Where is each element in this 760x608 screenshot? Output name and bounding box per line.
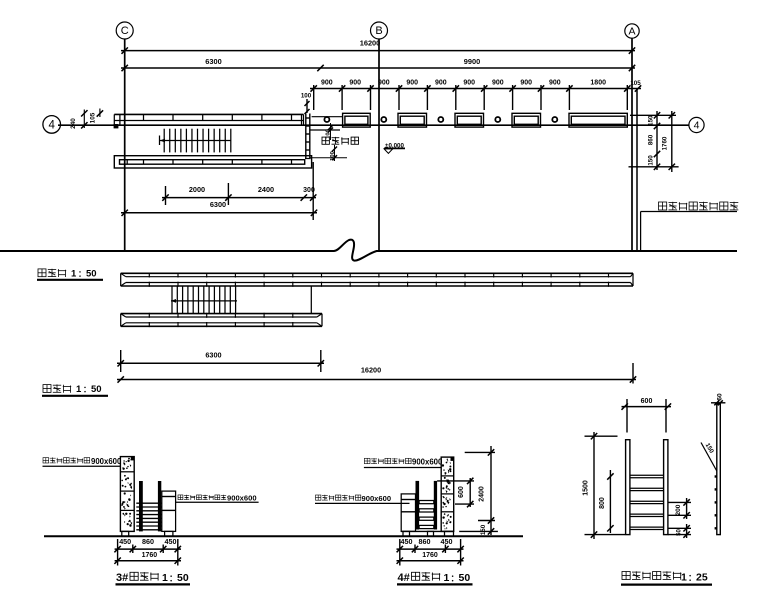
svg-text:：: ：: [83, 385, 91, 394]
dimension row 900x9 1800 105: [310, 88, 641, 90]
svg-text:150: 150: [480, 524, 487, 535]
svg-text:900x600: 900x600: [412, 458, 443, 467]
dimension 6300 plan: [121, 212, 317, 214]
3# right stone block: [162, 491, 176, 531]
svg-text:3#: 3#: [116, 572, 128, 584]
svg-text:1: 1: [71, 269, 77, 280]
svg-text:900x600: 900x600: [362, 494, 392, 503]
svg-text:900: 900: [349, 79, 361, 86]
dimension 16200 top view: [117, 379, 636, 381]
3# label granite right: [178, 495, 183, 500]
detail ladder rails: [626, 440, 630, 535]
right dims 150 860 150 1760: [630, 114, 676, 116]
grid circle B: [371, 22, 388, 39]
top view stair arrow: [171, 300, 237, 302]
top view band long: [121, 272, 633, 274]
svg-text:1760: 1760: [662, 136, 669, 150]
dimension 6300 / 9900: [121, 67, 635, 69]
4# label granite left: [316, 495, 321, 500]
ladder in plan: [305, 114, 307, 159]
anchor circles: [324, 117, 329, 122]
svg-text:860: 860: [142, 537, 154, 546]
svg-text:900: 900: [321, 79, 333, 86]
label ladder detail 1:25: [622, 572, 630, 580]
svg-text:600: 600: [458, 486, 465, 498]
svg-text:900: 900: [549, 79, 561, 86]
svg-text:800: 800: [599, 497, 606, 509]
4# ladder rails: [416, 481, 420, 530]
4# base and feet: [401, 530, 454, 532]
svg-text:4: 4: [48, 120, 55, 132]
stair arrow plan: [160, 140, 231, 142]
upper trench band: [114, 113, 303, 115]
grid line C: [124, 39, 126, 252]
ladder dims 100 100: [312, 116, 343, 118]
svg-text:16200: 16200: [360, 39, 381, 48]
svg-text:2400: 2400: [479, 486, 486, 502]
svg-text:B: B: [375, 25, 382, 37]
svg-text:25: 25: [696, 572, 708, 584]
svg-text:150: 150: [648, 155, 655, 166]
detail dim 200: [686, 498, 688, 519]
svg-text:50: 50: [177, 572, 189, 584]
4# dim 600: [469, 478, 471, 507]
3# feet: [122, 531, 129, 536]
svg-text:105: 105: [90, 112, 97, 123]
detail dim 800: [609, 470, 611, 533]
svg-text:1800: 1800: [590, 79, 606, 86]
4# left stone block: [401, 494, 415, 532]
4# label granite top: [364, 458, 370, 463]
detail dim 50: [686, 524, 688, 538]
svg-text:16200: 16200: [361, 365, 381, 374]
svg-text:900: 900: [406, 79, 418, 86]
svg-text:900: 900: [520, 79, 532, 86]
svg-text:150: 150: [648, 115, 655, 126]
top view band short: [121, 313, 322, 315]
basement wall line: [636, 89, 638, 251]
svg-text:900x600: 900x600: [91, 457, 122, 466]
svg-text:450: 450: [119, 537, 131, 546]
grid circle 4 right: [689, 117, 704, 132]
svg-text:450: 450: [401, 537, 413, 546]
detail dim 1500: [593, 432, 595, 539]
svg-text:450: 450: [441, 537, 453, 546]
svg-text:A: A: [628, 26, 635, 38]
dimension 2000 2400 300: [162, 197, 316, 199]
svg-text:50: 50: [459, 572, 471, 584]
grid circle A: [625, 24, 639, 38]
svg-text:2400: 2400: [258, 185, 274, 194]
svg-text:1: 1: [162, 572, 168, 584]
label top view 1:50: [43, 385, 51, 393]
grid circle 4 left: [43, 116, 61, 134]
svg-text:6300: 6300: [210, 200, 226, 209]
label plan view 1:50: [38, 269, 46, 277]
svg-text:105: 105: [630, 80, 641, 87]
ground line with break: [0, 240, 737, 261]
dimension 6300 top view: [117, 362, 324, 364]
3# stone column: [120, 457, 134, 532]
dimension 16200 top: [121, 50, 635, 52]
svg-text:4#: 4#: [398, 572, 410, 584]
svg-text:900: 900: [435, 79, 447, 86]
svg-text:50: 50: [86, 269, 97, 280]
3# steps: [136, 502, 161, 504]
svg-text:100: 100: [301, 93, 312, 100]
svg-text:900: 900: [463, 79, 475, 86]
svg-text:860: 860: [648, 134, 655, 145]
svg-text:1: 1: [76, 384, 82, 395]
label steel pipe ladder: [322, 137, 329, 144]
svg-text:860: 860: [419, 537, 431, 546]
svg-text:900x600: 900x600: [227, 494, 257, 503]
svg-text:50: 50: [91, 384, 102, 395]
svg-text:C: C: [121, 25, 129, 37]
elevation ground line: [44, 535, 523, 537]
svg-text:1500: 1500: [583, 480, 590, 496]
grid circle C: [116, 22, 133, 39]
detail side bar: [717, 404, 721, 535]
svg-text:2000: 2000: [189, 185, 205, 194]
4# dim 2400 150: [490, 446, 492, 535]
top view ladder line: [310, 286, 312, 313]
axis 4 line: [58, 124, 689, 126]
4# ladder rungs: [419, 501, 434, 504]
3# ladder posts: [139, 481, 143, 531]
svg-text:1: 1: [444, 572, 450, 584]
svg-text:1: 1: [681, 572, 687, 584]
svg-text:1760: 1760: [142, 552, 158, 559]
detail diagonal leader 150: [701, 443, 717, 472]
curb stones row: [343, 113, 371, 127]
svg-text:450: 450: [165, 537, 177, 546]
grid line B: [378, 39, 380, 252]
4# stone column: [441, 457, 454, 531]
svg-text:6300: 6300: [205, 351, 221, 360]
svg-text:600: 600: [641, 398, 653, 405]
svg-text:：: ：: [78, 270, 86, 279]
stair hatch plan: [163, 129, 165, 153]
svg-text:900: 900: [378, 79, 390, 86]
lower trench band: [114, 156, 311, 168]
svg-text:6300: 6300: [205, 57, 221, 66]
grid line A: [631, 38, 633, 251]
svg-text:200: 200: [675, 504, 682, 515]
svg-text:9900: 9900: [464, 57, 480, 66]
svg-text:60: 60: [717, 393, 724, 401]
svg-text:4: 4: [694, 120, 700, 132]
svg-text:240: 240: [70, 118, 77, 129]
detail ladder rungs: [630, 474, 664, 476]
svg-text:900: 900: [492, 79, 504, 86]
top view stair hatch: [171, 286, 173, 313]
svg-text:300: 300: [303, 187, 315, 194]
3# label granite top: [43, 458, 49, 463]
label basement wall position: [659, 202, 667, 210]
svg-text:1760: 1760: [422, 552, 438, 559]
